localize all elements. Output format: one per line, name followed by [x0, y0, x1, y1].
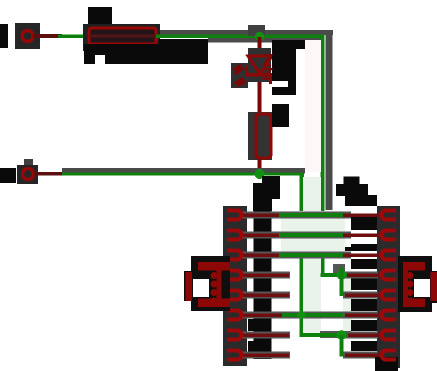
resistor R1 value label block — [272, 104, 289, 127]
relay K1 coil right bracket — [403, 262, 437, 307]
net name band along top wire — [160, 30, 333, 210]
junction node on row 4 — [337, 270, 347, 280]
fuse F1 — [83, 24, 160, 51]
pin P2 — [17, 159, 62, 184]
zener diode D1 value red marks on block — [264, 55, 271, 79]
relay K1 coil left bracket — [186, 262, 231, 307]
zener diode D1 — [245, 56, 272, 84]
relay K1 bottom label block — [375, 357, 398, 371]
junction node on row 7 — [337, 330, 347, 340]
wire net2 row 7 to row 8 — [340, 335, 344, 357]
wire pin P1 to fuse — [58, 35, 90, 38]
wire net1 row 2 — [279, 233, 343, 237]
relay K1 right pin sockets — [382, 211, 397, 360]
fuse F1 name label — [88, 7, 112, 24]
zener diode D1 value label blocks — [272, 40, 307, 95]
wire net2 branch to row 6 — [282, 311, 343, 319]
zener diode D1 background text block — [231, 48, 271, 88]
relay K1 top-right label block — [336, 177, 368, 197]
relay K1 left pin sockets — [227, 211, 242, 360]
zener diode D1 name squiggle — [233, 65, 246, 86]
net label above junction 1 — [248, 25, 265, 36]
pin P1 — [15, 23, 62, 49]
wire net1 row 1 — [279, 213, 343, 217]
resistor R1 — [256, 114, 271, 158]
wire net1 corner to row 4 — [321, 273, 348, 277]
wire net2 vertical — [300, 172, 305, 337]
relay K1 right socket column background — [377, 206, 400, 368]
relay K1 text row bands — [241, 212, 378, 359]
relay K1 left name text column — [248, 197, 272, 359]
junction node 2 — [255, 169, 265, 179]
wire net1 row 3 — [279, 253, 343, 257]
resistor R1 bottom lead — [258, 158, 262, 172]
pale tint inside wire loop — [281, 40, 352, 335]
pin P1 label block — [0, 24, 8, 48]
relay K1 right pin leads — [343, 213, 383, 357]
relay K1 coil left bracket background — [184, 256, 230, 311]
wire net1 row 4 to row 5 — [340, 267, 344, 296]
relay K1 right name text column blocks — [345, 195, 377, 351]
junction node 1 — [255, 32, 264, 41]
relay K1 left socket column background — [223, 206, 247, 366]
zener diode D1 lead from node 1 — [258, 37, 262, 115]
resistor R1 background block — [248, 112, 272, 160]
wire fuse to corner node — [156, 35, 325, 38]
relay K1 left pin leads — [241, 213, 289, 357]
relay K1 coil right bracket background — [398, 256, 437, 312]
pin P2 label block — [0, 168, 16, 183]
wire net1 vertical right side — [321, 35, 325, 275]
net label below junction 2 (merges into relay name column top) — [253, 176, 280, 211]
wire pin P2 to junction 2 — [62, 168, 305, 176]
fuse F1 value label block — [84, 39, 208, 64]
wire net2 corner to row 7 — [300, 333, 348, 337]
